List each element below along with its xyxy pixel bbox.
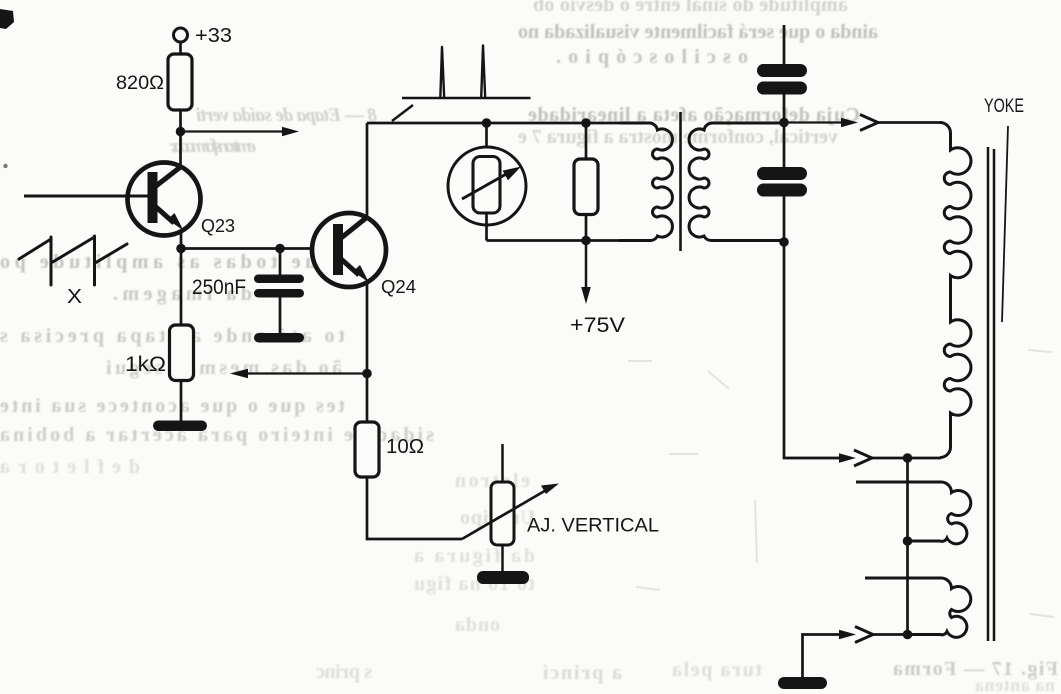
svg-text:250nF: 250nF — [192, 276, 246, 299]
svg-text:onda: onda — [455, 614, 500, 636]
wire top feed to yoke — [878, 121, 942, 124]
svg-text:amplitude do sinal entre o des: amplitude do sinal entre o desvio ob — [533, 0, 848, 16]
svg-text:820Ω: 820Ω — [116, 72, 164, 94]
leader tick to waveform — [392, 105, 413, 121]
svg-text:ainda o que será facilmente vi: ainda o que será facilmente visualizada … — [518, 21, 878, 43]
faint bleed figure strokes — [628, 350, 1054, 617]
wire right vertical rail top — [783, 25, 786, 64]
ground yoke return — [778, 635, 840, 690]
ground below 1kohm — [153, 421, 207, 432]
resistor R 820ohm — [168, 54, 192, 110]
transformer T1 primary winding — [619, 123, 672, 241]
svg-text:X: X — [67, 286, 82, 308]
terminal +33 — [174, 28, 188, 55]
wire middle feed to yoke — [872, 457, 941, 460]
wire between capacitors — [783, 95, 786, 168]
wire node to capacitor — [279, 249, 282, 276]
connector arrow bottom feed — [839, 627, 873, 643]
arrow output right from collector node — [181, 127, 299, 137]
svg-text:tura pela: tura pela — [672, 659, 762, 681]
wire Q23 emitter down — [180, 232, 183, 326]
svg-text:s princ: s princ — [316, 661, 372, 683]
svg-text:8 — Etapa de saída verti: 8 — Etapa de saída verti — [195, 105, 377, 126]
transformer T1 core — [679, 112, 682, 251]
svg-text:defletora: defletora — [0, 456, 140, 478]
wire base lead Q23 — [24, 195, 148, 198]
transformer T1 secondary winding — [689, 123, 784, 241]
wire 1kohm to ground — [180, 381, 183, 422]
transistor Q24 — [312, 213, 386, 287]
pulse waveform — [402, 46, 531, 99]
svg-text:na antena: na antena — [975, 675, 1055, 694]
node resistor top junction — [581, 118, 591, 128]
sawtooth waveform X — [19, 236, 127, 285]
capacitor C top pair — [757, 64, 807, 95]
VDR variable resistor U1 — [448, 123, 526, 241]
svg-text:em transformador.: em transformador. — [169, 136, 256, 157]
svg-text:da figura a: da figura a — [414, 545, 535, 567]
wire bottom feed to yoke — [873, 633, 942, 636]
svg-text:Q24: Q24 — [381, 276, 416, 297]
yoke middle coil L2 — [856, 482, 971, 544]
wire main top rail — [367, 122, 652, 125]
node +75V junction — [581, 236, 591, 246]
ink speck left edge — [3, 164, 7, 168]
capacitor C second pair — [757, 167, 807, 197]
yoke top coil L1 — [940, 123, 971, 458]
arrow +75V supply — [581, 241, 591, 305]
node yoke middle junction — [903, 536, 913, 546]
node secondary bottom junction — [779, 237, 789, 247]
wire 10ohm to potentiometer — [367, 477, 462, 539]
wire resistor to Q23 collector — [179, 110, 182, 166]
svg-text:+33: +33 — [195, 24, 232, 47]
node secondary top junction — [779, 118, 789, 128]
connector arrow top feed — [784, 115, 878, 131]
resistor R 1kohm — [170, 325, 194, 381]
node yoke bottom junction — [903, 630, 913, 640]
resistor R2 unlabeled — [574, 123, 598, 241]
wire bottom rail — [487, 239, 653, 242]
arrow feedback left — [230, 369, 367, 379]
resistor R 10ohm — [355, 422, 379, 477]
capacitor C 250nF — [254, 275, 304, 298]
svg-text:10Ω: 10Ω — [386, 436, 424, 458]
node capacitor branch junction — [275, 244, 285, 254]
wire right rail down to yoke feed — [784, 197, 843, 459]
svg-text:Q23: Q23 — [201, 215, 235, 236]
svg-text:a princí: a princí — [543, 662, 622, 684]
node collector Q23 junction — [176, 127, 186, 137]
ground below potentiometer — [477, 571, 529, 584]
wire Q24 emitter down — [366, 282, 369, 422]
wire emitter node to Q24 base — [181, 247, 334, 250]
svg-text:1kΩ: 1kΩ — [125, 353, 166, 376]
potentiometer AJ VERTICAL — [462, 444, 559, 572]
ink speck top left — [0, 9, 14, 29]
svg-text:vertical, conforme mostra a fi: vertical, conforme mostra a figura 7 e — [518, 126, 838, 148]
connector arrow middle feed — [785, 450, 872, 466]
svg-text:+75V: +75V — [570, 313, 626, 337]
wire Q24 collector up — [366, 123, 369, 218]
node emitter Q24 junction — [362, 369, 372, 379]
ground below capacitor — [254, 333, 304, 343]
leader line YOKE — [1002, 126, 1008, 322]
transistor Q23 — [128, 163, 201, 236]
wire yoke vertical link — [906, 458, 909, 635]
node yoke top junction — [903, 453, 913, 463]
yoke core lines — [988, 147, 994, 641]
svg-text:YOKE: YOKE — [984, 95, 1024, 117]
yoke bottom coil L3 — [865, 578, 971, 637]
wire capacitor to ground — [279, 298, 282, 334]
svg-text:AJ. VERTICAL: AJ. VERTICAL — [527, 516, 659, 537]
node VDR top junction — [482, 118, 492, 128]
node emitter Q23 junction — [176, 244, 186, 254]
